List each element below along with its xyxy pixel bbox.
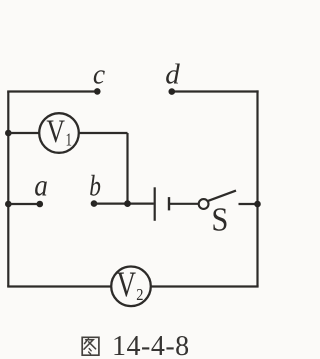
wire: bottom side: [7, 285, 258, 287]
node b (open terminal): [91, 200, 98, 207]
wire: V1 branch vertical drop: [126, 133, 128, 204]
wire: switch to right vertical: [239, 203, 258, 205]
svg-text:a: a: [34, 169, 48, 203]
switch S: lever arm: [208, 191, 236, 201]
svg-text:1: 1: [66, 130, 72, 150]
voltmeter V2: [111, 264, 151, 306]
wire: right vertical side: [256, 90, 258, 286]
junction: middle branch on left vertical: [5, 201, 12, 208]
node c: [94, 88, 101, 95]
battery cell: long plate: [154, 187, 156, 221]
voltmeter V1: [39, 113, 79, 153]
switch S: pivot circle: [199, 199, 209, 209]
svg-text:2: 2: [136, 286, 143, 304]
wire: left vertical side: [7, 92, 9, 287]
junction: V1 branch on left vertical: [5, 130, 12, 137]
svg-text:b: b: [89, 169, 101, 202]
svg-text:V: V: [46, 114, 65, 150]
svg-text:14-4-8: 14-4-8: [112, 331, 190, 359]
node d: [169, 88, 176, 95]
wire: top-left segment to node c: [7, 90, 97, 92]
wire: battery to switch S: [169, 203, 199, 205]
battery cell: short plate: [168, 197, 170, 210]
wire: top-right segment from node d: [172, 90, 259, 92]
wire: V1 left lead: [8, 132, 40, 134]
caption: 图 glyph (drawn): [82, 337, 99, 355]
wire: V1 right lead: [79, 132, 128, 134]
svg-text:S: S: [211, 200, 228, 238]
wire: node b to battery: [94, 203, 154, 205]
junction: V1 branch meets b wire: [124, 200, 131, 207]
svg-text:c: c: [93, 59, 106, 91]
junction: switch branch on right vertical: [254, 201, 261, 208]
svg-text:d: d: [165, 58, 180, 90]
wire: left vertical to terminal a: [8, 203, 40, 205]
svg-text:V: V: [117, 264, 137, 304]
node a (open terminal): [37, 201, 44, 208]
